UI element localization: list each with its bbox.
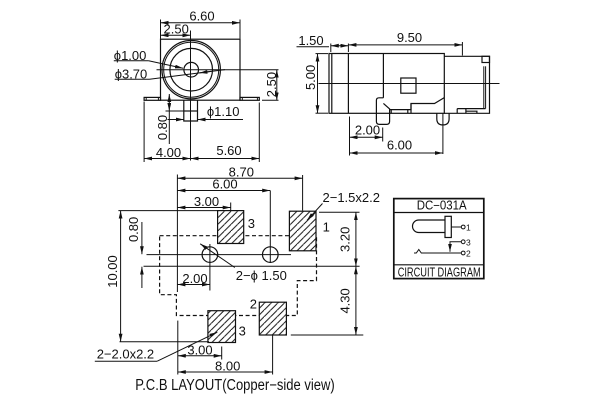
hole 1 (left circle) xyxy=(202,247,218,263)
dim 2.50 line (top) xyxy=(161,34,191,36)
dim 0.80 step extension line xyxy=(166,110,184,112)
pad 3 bottom (hatched) xyxy=(208,311,236,343)
svg-text:2.50: 2.50 xyxy=(164,22,189,37)
svg-text:6.00: 6.00 xyxy=(212,177,237,192)
pad 1 (hatched) xyxy=(289,211,316,251)
side view outer body xyxy=(329,54,444,114)
dashed connector outline xyxy=(160,236,317,316)
svg-text:1: 1 xyxy=(466,223,471,233)
dim 1.50 ext lines xyxy=(330,44,332,53)
svg-text:8.00: 8.00 xyxy=(215,358,240,373)
pin 2 line with spring bump xyxy=(414,250,461,254)
svg-text:5.60: 5.60 xyxy=(216,143,241,158)
svg-text:2−ϕ 1.50: 2−ϕ 1.50 xyxy=(236,268,287,283)
bottom dim extension lines xyxy=(143,102,145,163)
dim 0.80 (pcb) arrows xyxy=(141,222,143,254)
left flange tab xyxy=(144,97,160,100)
barrel outer rim circle xyxy=(164,42,219,97)
slot line B xyxy=(144,265,360,267)
dim 4.30 line xyxy=(355,266,357,335)
right flange tab xyxy=(240,97,259,100)
svg-text:9.50: 9.50 xyxy=(397,30,422,45)
svg-text:2: 2 xyxy=(466,249,471,259)
top dims left extension line xyxy=(176,175,178,293)
phi 3.70 leader line xyxy=(150,70,226,80)
dim 2.50 right vertical: bottom extension xyxy=(262,99,279,101)
label 2-2.0x2.2 leader xyxy=(157,332,217,361)
plug barrel symbol xyxy=(413,220,446,233)
pin 3 line xyxy=(450,242,461,246)
dim 10.00 bottom extension xyxy=(120,341,210,343)
svg-text:6.00: 6.00 xyxy=(387,137,412,152)
divider 1 xyxy=(347,54,349,114)
dim 2.00 (pcb) line xyxy=(177,284,210,286)
pin 2 terminal circle xyxy=(461,251,465,255)
hole 1 vertical centerline xyxy=(209,244,211,291)
svg-text:1: 1 xyxy=(323,219,330,234)
svg-text:2−2.0x2.2: 2−2.0x2.2 xyxy=(97,347,154,362)
dim 6.60 extension lines xyxy=(160,20,162,39)
dim 8.70 ext xyxy=(302,175,304,211)
rear bottom step xyxy=(457,108,485,110)
svg-text:2: 2 xyxy=(250,297,257,312)
dim 4.00 line xyxy=(144,158,190,160)
dim 6.00 (pcb) line xyxy=(177,190,270,192)
front view body square xyxy=(161,39,241,100)
phi 3.70 leader underline xyxy=(115,78,150,80)
dim 3.20 line xyxy=(355,212,357,266)
phi 1.00 leader underline xyxy=(114,60,149,62)
rear inner pin line xyxy=(483,66,485,108)
svg-text:0.80: 0.80 xyxy=(126,217,141,242)
svg-text:2.50: 2.50 xyxy=(264,72,279,97)
svg-text:ϕ1.10: ϕ1.10 xyxy=(207,104,240,119)
bottom pin (phi 1.10) xyxy=(184,100,198,121)
barrel inner circle (phi 3.70) xyxy=(170,48,213,91)
bottom divider xyxy=(394,264,484,266)
center pin circle (phi 1.00) xyxy=(184,62,199,77)
svg-text:4.00: 4.00 xyxy=(156,145,181,160)
pin 3 switch arrow xyxy=(449,244,451,252)
svg-text:2−1.5x2.2: 2−1.5x2.2 xyxy=(323,190,380,205)
pin 1 line xyxy=(451,226,461,228)
svg-text:4.30: 4.30 xyxy=(337,288,352,313)
dim 3.00 top line xyxy=(177,207,230,209)
svg-text:1.50: 1.50 xyxy=(298,33,323,48)
dim 9.50 line xyxy=(348,44,462,46)
svg-text:3.00: 3.00 xyxy=(194,194,219,209)
svg-text:2.00: 2.00 xyxy=(182,271,207,286)
part number box outer xyxy=(394,199,484,279)
side view centerline xyxy=(319,83,500,85)
svg-text:DC−031A: DC−031A xyxy=(417,199,468,213)
dim 2.00 line xyxy=(350,136,383,138)
svg-text:3: 3 xyxy=(239,323,246,338)
right pin centerline extension xyxy=(442,113,444,154)
label 2-1.5x2.2 leader xyxy=(307,204,323,221)
left edge inner line xyxy=(331,54,333,114)
svg-text:3: 3 xyxy=(248,216,255,231)
svg-text:0.80: 0.80 xyxy=(155,115,170,140)
dim 4.30 bottom ext xyxy=(291,334,364,336)
horizontal centerline xyxy=(157,69,279,71)
bottom dims left extension xyxy=(177,321,179,375)
divider 2 xyxy=(382,54,384,98)
phi 3.70 leader arrow xyxy=(200,71,212,73)
phi 1.00 leader arrow xyxy=(149,61,183,69)
barrel outer circle xyxy=(162,40,220,98)
dim 6.00 line xyxy=(350,152,443,154)
rear section outline xyxy=(444,56,489,113)
dim 3.00 top ext xyxy=(230,203,232,211)
svg-text:3: 3 xyxy=(466,237,471,247)
vertical centerline xyxy=(190,31,192,161)
svg-text:10.00: 10.00 xyxy=(105,255,120,288)
dim 8.70 line xyxy=(177,177,302,179)
svg-text:P.C.B LAYOUT(Copper−side view): P.C.B LAYOUT(Copper−side view) xyxy=(135,377,335,394)
pin 3 terminal circle xyxy=(461,240,465,244)
dim 10.00 top extension xyxy=(118,210,217,212)
pin 1 terminal circle xyxy=(461,225,465,229)
title divider xyxy=(394,212,484,214)
cutout step lines xyxy=(390,98,445,110)
label 2-2.0x2.2 underline xyxy=(95,360,157,362)
pin step line xyxy=(184,110,198,112)
dim 1.50 line xyxy=(331,45,349,47)
dim 2.50 right vertical line xyxy=(276,70,278,101)
svg-text:2.00: 2.00 xyxy=(355,123,380,138)
rear top notch xyxy=(482,56,490,62)
dim 3.00 bottom ext xyxy=(221,347,223,360)
svg-text:5.00: 5.00 xyxy=(303,65,318,90)
plug tip bar xyxy=(445,216,451,237)
dim 8.00 line xyxy=(178,371,273,373)
pad 3 top (hatched) xyxy=(218,211,244,244)
dim 5.00 line xyxy=(317,54,319,114)
pad 2 (hatched) xyxy=(259,302,286,335)
dim phi1.10 right segment xyxy=(198,119,244,121)
dim 5.60 line xyxy=(191,158,260,160)
dim phi1.10 left segment xyxy=(168,119,184,121)
dim 3.00 bottom line xyxy=(178,355,222,357)
dim 6.60 line xyxy=(161,22,241,24)
svg-text:6.60: 6.60 xyxy=(189,9,214,24)
dim 5.00 ext lines xyxy=(316,53,329,55)
dim 8.00 right ext (pad2 centerline) xyxy=(272,335,274,375)
label 2-phi1.50 leader xyxy=(200,244,235,268)
dim 10.00 line xyxy=(120,211,122,342)
dim 9.50 ext xyxy=(461,42,463,56)
small square detail xyxy=(401,78,416,93)
slot line A xyxy=(147,254,292,256)
left pin outline with cutout xyxy=(376,98,389,125)
hole 2 vertical centerline / 6.00 ext xyxy=(269,191,271,264)
right pin (rounded) xyxy=(437,113,449,125)
hole 2 (right circle) xyxy=(263,247,279,263)
svg-text:CIRCUIT DIAGRAM: CIRCUIT DIAGRAM xyxy=(398,266,481,280)
dim 2.00 ext lines xyxy=(349,117,351,142)
dim 0.80 vertical line with arrows xyxy=(168,94,170,101)
svg-text:3.20: 3.20 xyxy=(337,227,352,252)
dim 3.20 top ext xyxy=(319,211,360,213)
